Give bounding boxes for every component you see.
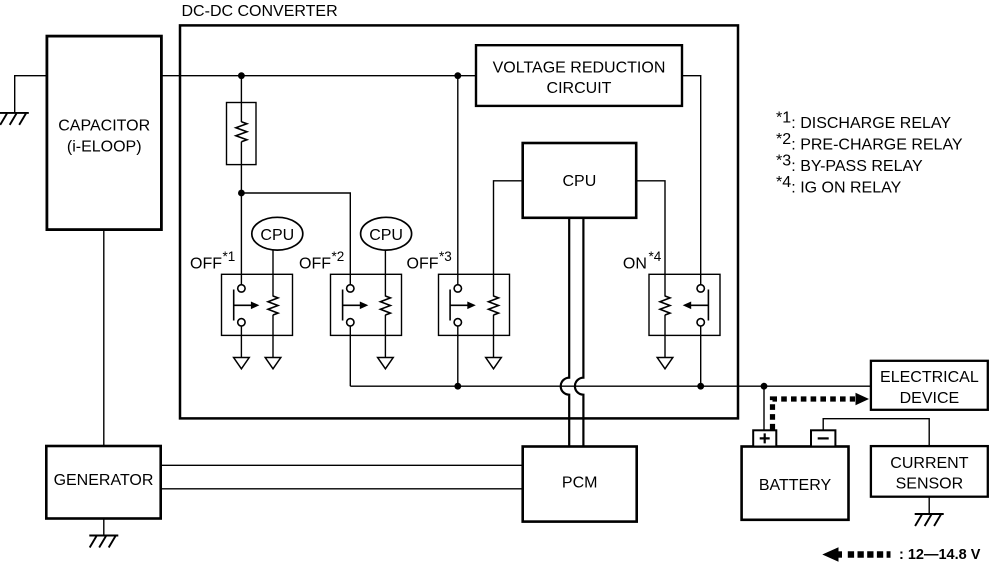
ground arrow (relay K3 coil) [486,358,502,369]
svg-text:BATTERY: BATTERY [759,477,832,494]
wire: CPU ellipse E2 to relay K2 coil [384,250,386,297]
relay K2 (pre-charge) contact circle top [347,285,354,292]
resistor R1 (discharge resistor) body box [227,103,257,165]
relay K1 (discharge) contact circle bottom [238,319,245,326]
svg-text:PCM: PCM [562,475,598,492]
junction: output bus / battery feed [761,383,768,390]
current sensor block [871,446,988,497]
svg-text:OFF: OFF [407,256,439,273]
svg-text:SENSOR: SENSOR [896,476,964,493]
wire: node A to relay K1 top contact [240,193,242,285]
relay K1 (discharge) switch armature bar [233,290,235,321]
wire: main positive bus, capacitor to voltage reduction circuit [161,75,477,77]
wire: current sensor to ground [928,497,930,514]
svg-text:DC-DC CONVERTER: DC-DC CONVERTER [182,3,338,20]
svg-text:: 12—14.8 V: : 12—14.8 V [899,547,981,563]
wire: relay K3 coil to ground arrow [493,315,495,358]
svg-text:CPU: CPU [563,173,597,190]
wire: capacitor to generator [103,230,105,446]
wire: relay K4 bottom contact down to output bus [700,326,702,386]
svg-text:CPU: CPU [369,227,403,244]
CPU block U1 [523,143,637,218]
svg-text:: PRE-CHARGE RELAY: : PRE-CHARGE RELAY [791,137,963,154]
relay K2 (pre-charge) coil resistor [380,296,390,315]
wire: battery positive feed from bus junction [763,386,765,430]
op-amp/CPU driver ellipse E1 [252,217,303,250]
relay K4 (IG ON) contact circle bottom [697,319,704,326]
svg-text:ELECTRICAL: ELECTRICAL [880,369,979,386]
wire: relay K2 coil to ground arrow [384,315,386,358]
svg-text:OFF: OFF [299,256,331,273]
junction: bus / relay K3 [454,72,461,79]
svg-text:*1: *1 [776,110,791,127]
svg-text:OFF: OFF [190,256,222,273]
relay K4 (IG ON) box [649,274,720,335]
wire: output bus to electrical device [350,385,871,387]
wire: CPU to PCM signal line 2 (with hop over bus) [575,218,584,447]
relay K2 (pre-charge) switch armature bar [342,290,344,321]
wire: relay K1 coil to ground arrow [272,315,274,358]
svg-text:CAPACITOR: CAPACITOR [58,118,150,135]
battery negative terminal [811,430,835,446]
svg-text:: DISCHARGE RELAY: : DISCHARGE RELAY [791,115,951,132]
relay K3 (by-pass) box [439,274,510,335]
relay K1 (discharge) contact circle top [238,285,245,292]
svg-text:: IG ON RELAY: : IG ON RELAY [791,180,901,197]
svg-text:GENERATOR: GENERATOR [54,472,154,489]
relay K3 (by-pass) switch arrow [450,304,469,306]
svg-text:CURRENT: CURRENT [890,455,968,472]
relay K2 (pre-charge) contact circle bottom [347,319,354,326]
ground arrow (relay K2 coil) [378,358,394,369]
wire: voltage reduction circuit output to relay K4 [682,76,701,285]
PCM block [523,447,637,522]
ground arrow (relay K1 contact) [234,358,250,369]
dashed power flow: battery to electrical device [773,399,856,430]
wire: relay K3 bottom contact down to output bus [457,326,459,386]
resistor R1 zigzag element [236,122,247,142]
svg-text:: BY-PASS RELAY: : BY-PASS RELAY [791,158,923,175]
capacitor (i-ELOOP) block [47,36,161,230]
relay K3 (by-pass) contact circle top [454,285,461,292]
svg-text:*4: *4 [776,174,791,191]
relay K4 (IG ON) switch arrow [690,304,709,306]
svg-text:CPU: CPU [260,227,294,244]
relay K4 (IG ON) contact circle top [697,285,704,292]
svg-text:CIRCUIT: CIRCUIT [547,80,612,97]
junction: bus / R1 branch [238,72,245,79]
relay K3 (by-pass) contact circle bottom [454,319,461,326]
ground arrow (relay K4 coil) [657,358,673,369]
wire: generator to PCM line 2 [161,488,523,490]
relay K2 (pre-charge) switch arrow [343,304,362,306]
wire: generator to PCM line 1 [161,464,523,466]
relay K4 (IG ON) switch armature bar [707,290,709,321]
svg-text:(i-ELOOP): (i-ELOOP) [67,139,142,156]
junction: output bus / relay K4 [697,383,704,390]
svg-text:*2: *2 [776,131,791,148]
ground arrow (relay K1 coil) [265,358,281,369]
battery block [742,447,849,520]
voltage reduction circuit block U2 [476,45,682,106]
relay K1 (discharge) coil resistor [268,296,278,315]
relay K3 (by-pass) switch armature bar [449,290,451,321]
wire: capacitor left terminal to chassis ground [15,76,48,113]
svg-text:*1: *1 [223,249,236,264]
wire: battery negative to current sensor [823,419,929,446]
legend: dashed arrow voltage range 12-14.8V [822,547,838,562]
svg-text:DEVICE: DEVICE [900,390,960,407]
junction node A [238,190,245,197]
relay K2 (pre-charge) box [331,274,402,335]
ground G2 (generator) [89,536,118,548]
junction: output bus / relay K3 [454,383,461,390]
wire: CPU to PCM signal line 1 (with hop over bus) [561,218,570,447]
svg-text:*4: *4 [649,249,662,264]
op-amp/CPU driver ellipse E2 [361,217,412,250]
generator block [46,446,160,519]
wire: branch down to discharge resistor R1 [240,76,242,122]
wire: CPU left output to relay K3 coil [494,181,524,297]
wire: CPU right output to relay K4 coil [636,181,665,297]
svg-text:*3: *3 [439,249,452,264]
ground G3 (current sensor) [915,514,944,526]
svg-text:VOLTAGE REDUCTION: VOLTAGE REDUCTION [493,60,666,77]
wire: generator to ground [103,519,105,536]
wire: CPU ellipse E1 to relay K1 coil [272,250,274,297]
wire: node A across to relay K2 top contact [241,193,350,285]
svg-text:*3: *3 [776,153,791,170]
relay K4 (IG ON) coil resistor [660,296,670,315]
svg-text:*2: *2 [332,249,345,264]
wire: bus junction down to relay K3 top contact [457,76,459,285]
relay K1 (discharge) switch arrow [234,304,253,306]
electrical device block [871,361,988,410]
wire: relay K1 bottom contact to ground arrow [240,326,242,358]
svg-text:ON: ON [623,256,647,273]
wire: relay K4 coil to ground arrow [664,315,666,358]
wire: resistor R1 to node A [240,142,242,193]
relay K3 (by-pass) coil resistor [489,296,499,315]
ground G1 (capacitor) [0,113,29,125]
wire: relay K2 bottom contact down to output bus [349,326,351,386]
relay K1 (discharge) box [222,274,293,335]
DC-DC converter enclosure box [180,25,738,418]
battery positive terminal [753,430,776,446]
